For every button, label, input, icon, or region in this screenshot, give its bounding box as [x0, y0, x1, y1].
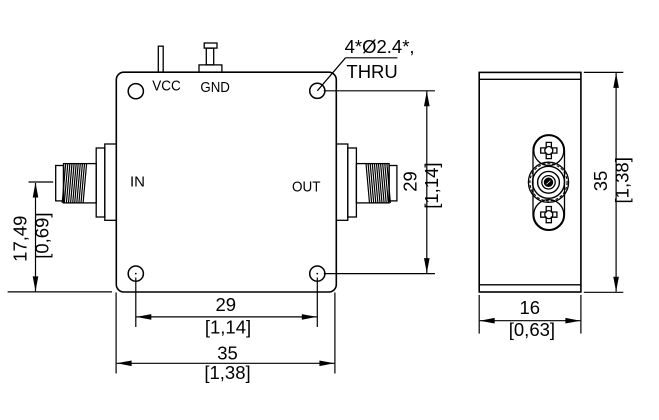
- svg-text:[1,14]: [1,14]: [421, 162, 442, 208]
- dimension 29 right vertical: [324, 91, 435, 274]
- side view screw bottom: [534, 200, 564, 230]
- svg-text:35: 35: [590, 171, 611, 192]
- svg-text:[1,14]: [1,14]: [205, 317, 251, 338]
- svg-text:[0,63]: [0,63]: [509, 319, 555, 340]
- leader 4*O2.4 THRU: [317, 58, 397, 91]
- svg-text:[0,69]: [0,69]: [32, 212, 53, 258]
- VCC pin: [158, 46, 163, 72]
- front view enclosure body: [116, 72, 336, 292]
- svg-text:IN: IN: [130, 173, 145, 190]
- svg-text:4*Ø2.4*,: 4*Ø2.4*,: [345, 36, 415, 57]
- IN SMA connector: [56, 144, 117, 220]
- side view screw top: [534, 136, 564, 166]
- side view SMA jack nut and rings: [528, 162, 568, 202]
- mounting hole bottom-right: [310, 266, 325, 281]
- dimension 16 side: [479, 295, 581, 334]
- side view SMA flange plate: [533, 135, 565, 231]
- svg-text:16: 16: [520, 297, 541, 318]
- svg-text:GND: GND: [200, 79, 230, 96]
- svg-text:[1,38]: [1,38]: [204, 362, 250, 383]
- mounting hole top-left: [128, 84, 143, 99]
- svg-text:[1,38]: [1,38]: [612, 157, 633, 203]
- svg-text:29: 29: [400, 171, 421, 192]
- svg-text:17,49: 17,49: [10, 216, 31, 262]
- mounting hole top-right: [310, 83, 325, 98]
- dimension 29 bottom: [136, 278, 317, 328]
- dimension 35 side right: [584, 72, 624, 292]
- svg-text:VCC: VCC: [152, 78, 181, 95]
- svg-text:OUT: OUT: [292, 178, 321, 195]
- OUT SMA connector: [336, 144, 397, 220]
- dimension 35 bottom: [116, 293, 335, 374]
- dimension 17,49 left: [8, 182, 112, 292]
- svg-text:29: 29: [216, 294, 237, 315]
- side view enclosure body: [479, 72, 581, 292]
- svg-text:35: 35: [217, 343, 238, 364]
- mounting hole bottom-left: [128, 266, 143, 281]
- svg-text:THRU: THRU: [346, 61, 397, 82]
- GND terminal: [199, 43, 222, 72]
